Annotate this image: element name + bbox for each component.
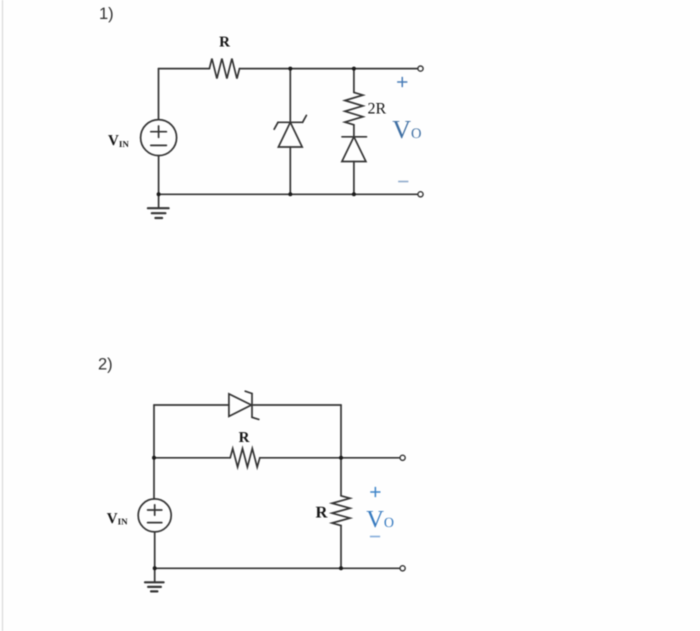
bottom wire horizontal [159, 193, 419, 195]
wire zener D3 to right vertical [252, 404, 341, 406]
wire diode D2 bottom [353, 162, 355, 195]
svg-text:VO: VO [392, 115, 421, 144]
resistor 2R zigzag [345, 92, 363, 124]
svg-text:−: − [397, 171, 409, 194]
wire right vertical bottom [340, 526, 342, 569]
bottom wire 2 [154, 567, 400, 569]
wire middle left to R2 [154, 457, 230, 459]
svg-text:VIN: VIN [107, 511, 128, 527]
voltage source VIN2 circle [138, 499, 171, 532]
wire right vertical top [340, 405, 342, 496]
minus sign inside source 2 [148, 522, 162, 524]
zener D3 hook bottom [252, 417, 259, 419]
wire left vertical [153, 405, 155, 499]
svg-text:2R: 2R [368, 101, 387, 118]
svg-text:−: − [369, 526, 381, 549]
zener diode D1 triangle [278, 122, 302, 147]
junction node top-left of zener [288, 67, 292, 71]
resistor R3 zigzag [332, 496, 350, 526]
junction node bottom of zener [288, 192, 292, 196]
zener diode D3 triangle [229, 394, 252, 417]
svg-text:VIN: VIN [108, 133, 129, 149]
plus sign inside source [151, 131, 167, 133]
wire source to bottom node [158, 156, 160, 195]
junction node bottom of D2 [352, 192, 356, 196]
svg-text:2): 2) [98, 356, 113, 374]
wire zener branch top [289, 69, 291, 123]
wire ground stub [158, 194, 160, 208]
svg-text:R: R [219, 35, 230, 51]
wire R2 to + terminal [260, 457, 400, 459]
ground symbol [148, 207, 169, 209]
junction node bottom left [157, 192, 161, 196]
wire source 2 to bottom [154, 532, 156, 568]
terminal top right 2 [400, 455, 405, 460]
zener diode D1 cathode bar [278, 121, 303, 123]
wire left vertical (top wire to source) [158, 69, 160, 120]
left page edge line [2, 0, 4, 631]
svg-text:+: + [369, 481, 381, 504]
ground 2 stub [154, 568, 156, 582]
zener D3 cathode bar [251, 394, 253, 418]
junction node mid-left [152, 456, 156, 460]
resistor R2 zigzag [230, 449, 260, 468]
junction node mid-right [339, 456, 343, 460]
wire 2R to diode D2 [353, 125, 355, 137]
wire top horizontal (R to + terminal) [240, 68, 419, 70]
resistor R1 zigzag [209, 59, 239, 79]
svg-text:R: R [239, 430, 250, 446]
terminal - (open circle) [418, 192, 423, 197]
svg-text:R: R [315, 502, 328, 521]
plus sign inside source 2 [148, 509, 162, 511]
svg-text:+: + [396, 71, 408, 94]
junction node top of 2R [352, 67, 356, 71]
diode D2 triangle [342, 137, 366, 162]
voltage source VIN circle [141, 120, 177, 156]
minus sign inside source [151, 144, 167, 146]
zener D1 bar hook right [303, 115, 307, 122]
junction node bottom-right 2 [339, 566, 343, 570]
junction node bottom-left 2 [153, 566, 157, 570]
diode D2 cathode bar [342, 136, 367, 138]
wire top left to zener D3 [154, 404, 229, 406]
wire top-left horizontal (source to R) [159, 68, 210, 70]
zener D3 hook top [245, 391, 252, 393]
zener D1 bar hook left [274, 122, 278, 129]
ground 2 symbol [145, 581, 164, 583]
wire 2R branch top [353, 69, 355, 93]
wire zener branch bottom [289, 147, 291, 194]
svg-text:1): 1) [99, 5, 114, 23]
terminal bottom right 2 [400, 566, 405, 571]
terminal + (open circle) [418, 66, 423, 71]
